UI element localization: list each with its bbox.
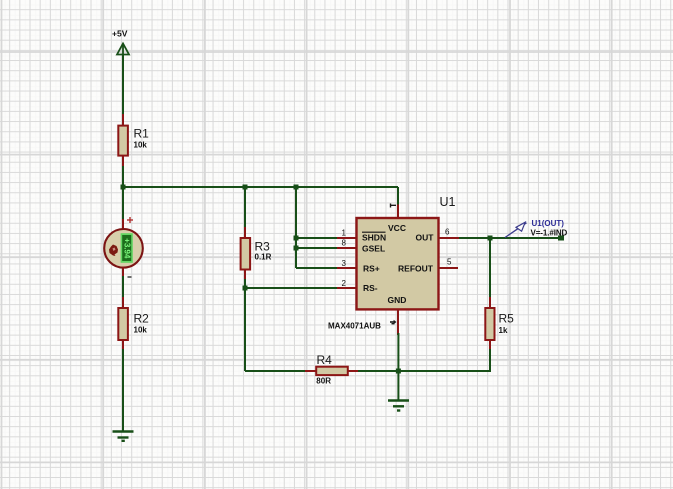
wire R3 to node B [244, 279, 246, 288]
sensor display inner [122, 235, 131, 261]
sensor minus mark [128, 276, 132, 278]
pin R4 left [305, 370, 317, 372]
wire to pin GSEL [296, 247, 338, 249]
wire rail to R3 [244, 187, 246, 229]
pin 8 GSEL [337, 247, 357, 249]
svg-text:5: 5 [447, 258, 452, 267]
svg-text:U1(OUT): U1(OUT) [532, 219, 565, 228]
svg-text:10k: 10k [134, 141, 148, 150]
pin 1 SHDN [337, 237, 357, 239]
junction pins branch at SHDN [294, 236, 299, 241]
svg-text:SHDN: SHDN [362, 233, 386, 243]
pin name SHDN with overline [362, 232, 386, 242]
sensor display frame [121, 233, 133, 263]
power +5V label [112, 29, 128, 39]
svg-text:1: 1 [342, 229, 347, 238]
wire R5 to bottom rail [245, 349, 490, 371]
wire sensor to R2 [122, 276, 124, 299]
svg-text:GND: GND [388, 295, 407, 305]
pin R5 bottom [489, 340, 491, 351]
svg-text:GSEL: GSEL [362, 243, 385, 253]
GND pin marker arrow [390, 320, 396, 325]
power symbol arrow [117, 44, 129, 57]
wire OUT to probe end [459, 237, 561, 239]
svg-text:MAX4071AUB: MAX4071AUB [328, 322, 381, 331]
sensor RT1 body [104, 229, 143, 268]
svg-text:R4: R4 [317, 353, 333, 367]
wire pins branch vertical [295, 187, 297, 268]
node B junction [243, 286, 248, 291]
svg-text:2: 2 [342, 279, 347, 288]
sensor adjust glyph [109, 245, 118, 257]
svg-text:U1: U1 [440, 195, 456, 209]
wire R2 to ground [122, 349, 124, 432]
op-amp U1 body [357, 218, 439, 309]
wire node A to sensor [122, 187, 124, 221]
svg-text:R5: R5 [499, 312, 515, 326]
wire to pin SHDN [296, 237, 338, 239]
resistor R1 [118, 126, 149, 156]
sensor plus mark [127, 217, 133, 223]
junction bottom rail at GND [396, 369, 401, 374]
node A junction [121, 185, 126, 190]
wire power to R1 [122, 55, 124, 116]
ground middle [388, 401, 409, 411]
pin sensor top [122, 219, 124, 230]
svg-text:R3: R3 [255, 240, 271, 254]
wire rail down to VCC [397, 187, 399, 206]
voltage probe U1(OUT) [505, 222, 527, 237]
pin 6 OUT [439, 237, 461, 239]
pin GND [397, 309, 399, 335]
pin 3 RS+ [337, 267, 357, 269]
svg-text:OUT: OUT [416, 233, 435, 243]
wire R1 to node A [122, 166, 124, 187]
ground left [113, 432, 134, 441]
pin 5 REFOUT stub [439, 267, 459, 269]
pin R1 top [122, 114, 124, 126]
resistor R4 [316, 353, 348, 386]
pin R2 top [122, 297, 124, 308]
svg-text:RS+: RS+ [363, 264, 380, 274]
pin R2 bottom [122, 340, 124, 351]
wire end square [558, 236, 564, 241]
wire to pin RS+ [296, 267, 338, 269]
svg-text:80R: 80R [316, 377, 331, 386]
resistor R3 [241, 238, 272, 270]
pin R3 bottom [244, 270, 246, 281]
svg-text:VCC: VCC [388, 223, 406, 233]
svg-text:R2: R2 [134, 312, 150, 326]
svg-text:8: 8 [342, 239, 347, 248]
wire node B to pin RS- [245, 287, 338, 289]
pin VCC [397, 205, 399, 219]
junction at pins branch [294, 185, 299, 190]
wire GND pin to bottom rail and ground [397, 333, 399, 401]
svg-text:10k: 10k [134, 326, 148, 335]
svg-text:V=-1.#IND: V=-1.#IND [531, 229, 568, 238]
svg-text:REFOUT: REFOUT [398, 263, 434, 273]
junction pins branch at GSEL [294, 246, 299, 251]
pin R4 right [348, 370, 358, 372]
svg-text:+3.94: +3.94 [123, 238, 132, 259]
wire node B down [244, 288, 246, 371]
pin sensor bottom [122, 267, 124, 278]
wire OUT junction down to R5 [489, 238, 491, 299]
pin R5 top [489, 297, 491, 308]
svg-text:3: 3 [342, 259, 347, 268]
pin 2 RS- [337, 287, 357, 289]
junction at R3 branch [243, 185, 248, 190]
svg-text:6: 6 [445, 228, 450, 237]
svg-text:+5V: +5V [112, 29, 128, 39]
svg-text:1k: 1k [499, 326, 508, 335]
pin R1 bottom [122, 156, 124, 168]
svg-text:0.1R: 0.1R [255, 253, 272, 262]
resistor R2 [118, 308, 149, 340]
svg-text:RS-: RS- [363, 283, 378, 293]
junction OUT to R5 [488, 236, 493, 241]
pin R3 top [244, 227, 246, 238]
wire top horizontal rail [123, 186, 398, 188]
svg-text:R1: R1 [134, 127, 150, 141]
resistor R5 [485, 308, 514, 340]
VCC pin marker [391, 204, 397, 208]
